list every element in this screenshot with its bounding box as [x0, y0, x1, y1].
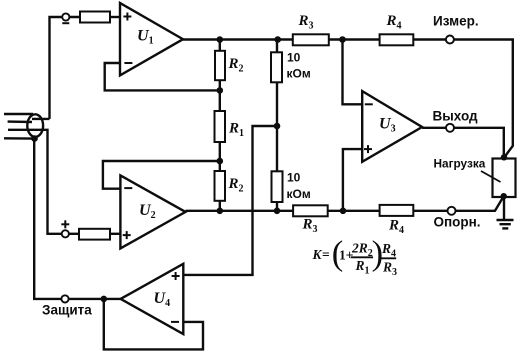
wire top input line from left vertical to U1 plus: [50, 17, 81, 119]
svg-text:=: =: [322, 247, 330, 262]
junction node R3/U3plus bottom: [340, 208, 347, 215]
wire from Oporn terminal to load bottom: [456, 197, 504, 211]
pin plus of U2: [123, 231, 131, 239]
resistor R4 upper: [380, 34, 414, 45]
junction node R3/U3minus top: [339, 36, 346, 43]
terminal Vykhod: [446, 124, 454, 132]
pin minus of U1: [124, 62, 132, 64]
junction node R2/R1 upper: [217, 87, 224, 94]
wire lower input to U2 plus: [69, 233, 79, 235]
junction node 10k midpoint: [274, 123, 281, 130]
wire guard line from shield dot down to Zashchita node: [34, 139, 61, 299]
shielded cable ellipse: [27, 114, 43, 137]
junction node 10k/R3 top: [274, 36, 281, 43]
resistor R4 lower: [380, 205, 414, 216]
svg-text:K: K: [312, 247, 323, 262]
resistor R2 upper: [215, 51, 225, 80]
wire lower signal line through cable: [8, 130, 62, 234]
svg-text:кОм: кОм: [287, 67, 311, 81]
wire R2/R1 chain vertical: [219, 40, 221, 211]
wire U1 feedback loop: [105, 63, 220, 90]
wire U3 minus input from top rail: [343, 40, 363, 105]
svg-text:10: 10: [287, 51, 301, 65]
wire U2 output rail (bottom rail y=210.8): [186, 210, 448, 212]
load resistor Nagruzka: [493, 159, 516, 198]
resistor input lower (box): [79, 229, 110, 240]
junction node R2 bottom on rail: [217, 208, 224, 215]
wire 10k divider vertical: [276, 40, 278, 211]
junction node U4 output: [101, 296, 108, 303]
pin plus of U3: [364, 145, 372, 153]
svg-text:кОм: кОм: [287, 187, 311, 201]
junction node shield to guard: [31, 135, 38, 142]
resistor R2 lower: [215, 171, 226, 201]
terminal Zashchita: [61, 295, 68, 302]
svg-text:Измер.: Измер.: [433, 14, 479, 29]
resistor input upper (box): [80, 12, 110, 23]
op-amp U3: [362, 91, 422, 162]
junction node load top: [501, 154, 507, 160]
op-amp U1: [120, 3, 183, 75]
wire shield stub to shield dot: [4, 137, 35, 140]
resistor 10 kOm lower: [272, 171, 283, 202]
junction node R2 top on rail: [217, 36, 224, 43]
pin minus of U4: [171, 321, 179, 323]
resistor R3 upper: [293, 34, 329, 45]
wire from Zashchita terminal to U4 output node: [69, 298, 104, 300]
wire from Vykhod terminal to load top: [454, 128, 504, 157]
svg-text:Нагрузка: Нагрузка: [434, 157, 486, 171]
junction node load bottom: [501, 193, 507, 199]
op-amp U4 (points left): [121, 264, 184, 334]
wire U1 output rail (top rail y=39.5): [183, 38, 446, 40]
wire U4 output to node: [104, 298, 121, 300]
ground: [497, 220, 514, 228]
svg-text:10: 10: [287, 170, 301, 184]
op-amp U2: [120, 175, 185, 248]
wire U2 feedback loop: [103, 161, 220, 189]
svg-text:Защита: Защита: [42, 303, 92, 318]
terminal Oporn: [448, 207, 456, 215]
pin label minus below upper terminal: [62, 22, 69, 24]
wire shield pair stub A: [4, 113, 33, 115]
junction node 10k/R3 bottom: [274, 208, 281, 215]
svg-text:Выход: Выход: [433, 108, 479, 123]
wire ground stem: [503, 197, 505, 220]
terminal plus (lower input): [62, 230, 69, 237]
wire from Izmer terminal to top right corner and down to load top: [454, 40, 513, 158]
pin label plus above lower terminal: [61, 220, 69, 228]
label pointer line for Nagruzka: [481, 171, 501, 182]
terminal Izmer: [446, 36, 454, 44]
junction node R1/R2 lower: [217, 158, 224, 165]
wire shield pair stub B: [8, 120, 32, 123]
pin minus of U3: [365, 103, 373, 105]
formula K = (1 + 2R2/R1) R4/R3: [312, 234, 398, 277]
pin minus of U2: [124, 187, 132, 189]
wire U3 plus input from bottom rail: [343, 149, 362, 211]
wire U4 feedback loop: [104, 299, 203, 350]
terminal minus (upper input): [62, 13, 69, 20]
resistor R1: [215, 111, 226, 142]
pin plus of U1: [123, 13, 131, 21]
resistor 10 kOm upper: [271, 52, 282, 82]
resistor R3 lower: [293, 205, 328, 216]
wire from 10k midpoint to U4 plus input: [183, 126, 277, 275]
svg-text:Опорн.: Опорн.: [434, 214, 481, 229]
pin plus of U4: [172, 272, 180, 280]
wire U3 output to Vykhod terminal: [422, 127, 446, 129]
